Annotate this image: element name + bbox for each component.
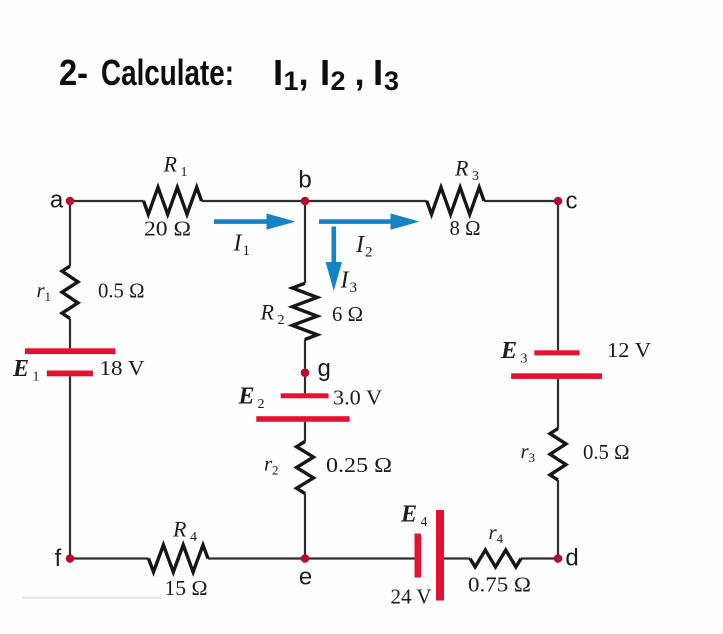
svg-text:0.25 Ω: 0.25 Ω [326,453,392,477]
battery E1 short plate [47,371,93,377]
battery E2 long plate [256,416,349,422]
svg-text:0.5 Ω: 0.5 Ω [583,440,630,464]
battery E4 long plate [436,510,444,601]
svg-text:1: 1 [284,66,299,96]
svg-text:3: 3 [384,66,399,96]
battery E3 short plate [534,350,579,355]
resistor r3 [550,429,566,481]
svg-text:E: E [400,502,417,528]
label R1 [163,152,188,181]
battery E3 long plate [511,373,602,379]
wire r4 to d [521,557,558,559]
node d [554,554,563,563]
svg-text:g: g [318,355,331,382]
svg-text:I: I [355,232,365,258]
wire a down to r1 [69,201,71,266]
current arrow I1 [214,213,296,229]
label r2 [264,452,279,478]
svg-text:I: I [320,52,330,93]
label r1 [37,278,52,304]
wire E3 to r3 [557,379,559,429]
svg-text:,: , [355,52,365,93]
title [59,52,399,96]
resistor R4 [149,545,209,572]
svg-text:2: 2 [365,245,373,261]
current arrow I2 [319,213,420,229]
svg-text:R: R [172,517,187,542]
node b [301,197,310,206]
svg-text:24 V: 24 V [391,585,432,609]
svg-text:E: E [500,338,517,364]
resistor R3 [427,187,484,214]
node g [301,368,310,377]
svg-text:E: E [238,384,255,410]
wire c down to E3 [557,201,559,350]
wire E4 to r4 [444,557,470,559]
svg-text:I: I [340,268,350,294]
svg-text:I: I [233,231,243,257]
label R3 [454,156,479,185]
current arrow I3 [326,227,342,292]
label E1 [12,356,40,385]
svg-text:d: d [565,545,578,572]
wire r3 to d [557,480,559,559]
label r4 [489,520,504,546]
svg-text:15 Ω: 15 Ω [165,576,208,600]
wire r2 to e [304,494,306,559]
battery E1 long plate [25,348,116,354]
svg-text:2-: 2- [59,52,88,93]
wire R2 to E2 through node g [304,340,306,394]
label E2 [238,384,265,413]
label E4 [400,502,428,531]
svg-text:18 V: 18 V [100,356,145,380]
svg-text:I: I [373,52,383,93]
label I2 [355,232,373,261]
faint scan smudge [22,597,162,599]
svg-text:Calculate:: Calculate: [101,52,234,93]
wire R4 to e and E4 [208,557,415,559]
svg-text:E: E [12,356,29,382]
wire R1 to b [202,200,427,202]
svg-text:R: R [163,152,178,177]
node c [554,197,563,206]
svg-text:c: c [566,188,578,215]
svg-text:a: a [50,187,64,214]
label I1 [233,231,251,260]
label R2 [260,300,285,329]
resistor r2 [297,442,314,494]
wire f to R4 [70,557,149,559]
svg-text:1: 1 [243,243,251,259]
svg-text:e: e [299,564,312,591]
svg-text:0.75 Ω: 0.75 Ω [468,573,531,597]
battery E4 short plate [415,534,422,578]
label E3 [500,338,528,367]
svg-text:4: 4 [497,531,504,546]
wire b down to R2 [304,201,306,283]
svg-text:0.5 Ω: 0.5 Ω [98,279,145,303]
svg-text:1: 1 [181,165,188,180]
svg-text:2: 2 [331,66,346,96]
svg-text:f: f [55,545,62,572]
svg-text:20 Ω: 20 Ω [144,217,191,241]
svg-text:3: 3 [472,169,479,184]
svg-text:R: R [260,300,275,325]
svg-text:3: 3 [350,280,358,296]
wire R3 to c [484,200,558,202]
resistor r1 [62,266,78,319]
node e [301,554,310,563]
svg-text:I: I [273,52,283,93]
svg-text:1: 1 [33,370,40,385]
svg-text:2: 2 [272,463,279,478]
battery E2 short plate [281,393,329,398]
wire E1 to f [69,376,71,558]
svg-text:b: b [298,167,311,194]
node a [66,197,75,206]
svg-text:3.0 V: 3.0 V [333,386,382,410]
svg-text:2: 2 [258,397,265,412]
svg-text:,: , [299,52,309,93]
wire a to R1 [70,200,144,202]
node f [66,554,75,563]
svg-text:1: 1 [45,289,52,304]
label r3 [521,439,536,465]
svg-text:2: 2 [278,313,285,328]
svg-text:8 Ω: 8 Ω [450,216,481,240]
resistor r4 [470,550,521,567]
resistor R2 [292,283,317,339]
label I3 [340,268,358,297]
svg-text:12 V: 12 V [607,338,651,362]
wire r1 to E1 [69,319,71,349]
svg-text:R: R [454,156,469,181]
wire E2 to r2 [304,422,306,442]
svg-text:3: 3 [521,352,528,367]
svg-text:3: 3 [529,450,536,465]
svg-text:4: 4 [421,515,428,530]
label R4 [172,517,197,546]
svg-text:4: 4 [190,530,197,545]
svg-text:6 Ω: 6 Ω [332,302,363,326]
resistor R1 [144,187,202,214]
